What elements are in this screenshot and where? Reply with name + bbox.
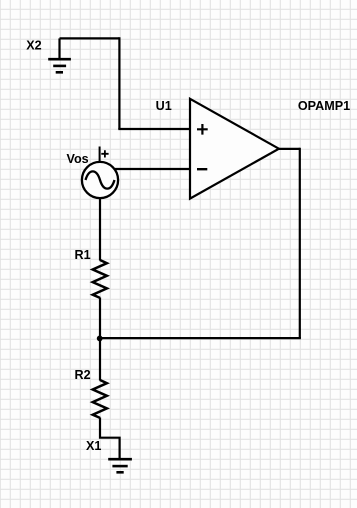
wire R1 to node <box>99 298 101 339</box>
svg-text:R1: R1 <box>75 248 91 262</box>
resistor R2 <box>93 380 107 418</box>
source Vos <box>82 147 118 199</box>
wire top from X2 ground to +input corner <box>60 37 120 39</box>
resistor R1 <box>93 260 107 298</box>
svg-text:U1: U1 <box>156 99 172 113</box>
wire op-amp output <box>278 148 300 150</box>
svg-text:OPAMP1: OPAMP1 <box>298 99 350 113</box>
wire feedback horizontal to node <box>100 337 301 339</box>
wire R2 to X1 ground <box>100 418 120 460</box>
wire feedback vertical <box>299 148 301 338</box>
wire node to R2 <box>99 338 101 381</box>
op-amp U1 <box>190 99 279 199</box>
svg-text:X2: X2 <box>26 38 41 52</box>
ground X1 <box>108 459 132 472</box>
wire into op-amp + input <box>118 128 190 130</box>
wire source to op-amp - input <box>113 168 190 170</box>
ground X2 <box>48 38 71 72</box>
node junction <box>97 336 103 342</box>
svg-text:R2: R2 <box>75 368 91 382</box>
wire vertical down to +input level <box>118 37 120 129</box>
wire source bottom to R1 <box>99 198 101 261</box>
svg-text:X1: X1 <box>86 439 101 453</box>
svg-text:Vos: Vos <box>67 152 89 166</box>
